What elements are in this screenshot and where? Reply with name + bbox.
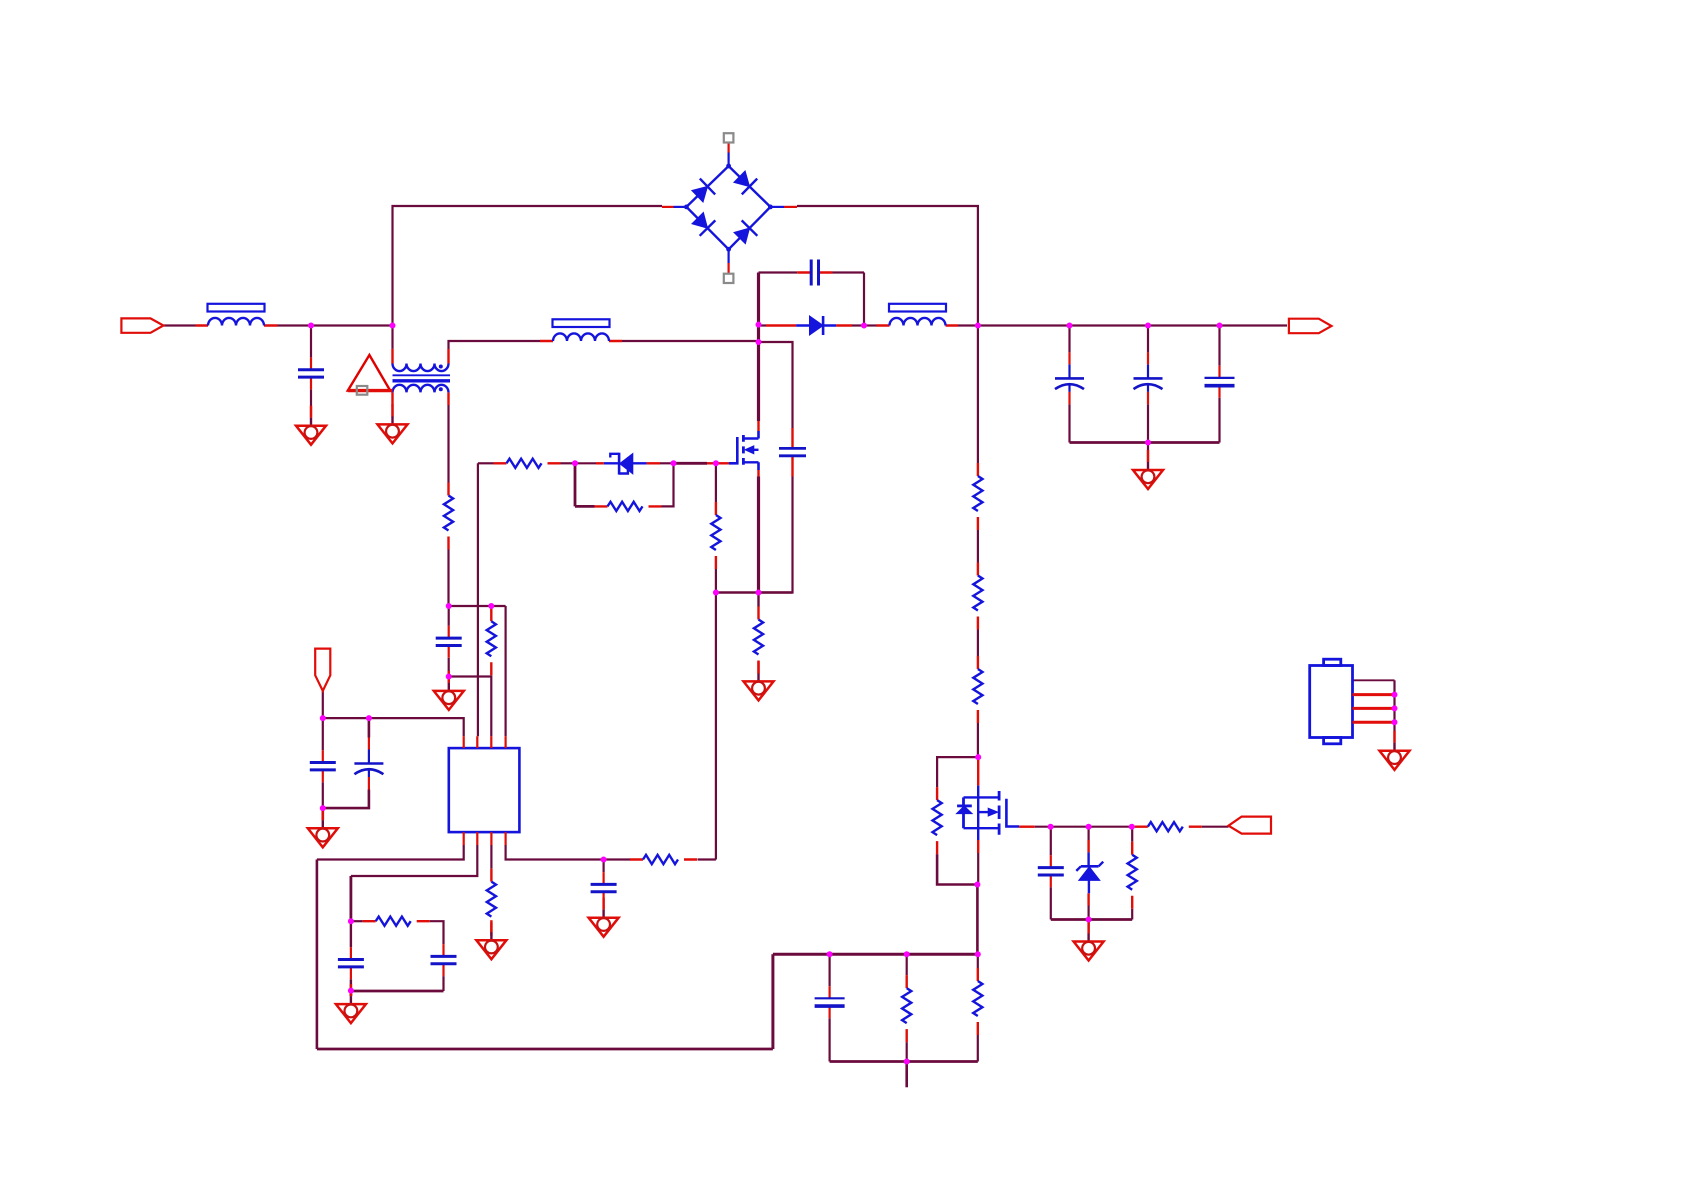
- wire: connector J2 pin1 wire: [1353, 679, 1395, 681]
- wire: bridge DC side across top and down to output rail junction: [797, 206, 978, 326]
- R9 body: [630, 855, 697, 864]
- wire: R3 to zener junction: [561, 462, 576, 464]
- wire: zener parallel loop bottom right and right leg: [662, 463, 674, 506]
- wire: rail D2 junction to L3: [864, 324, 877, 326]
- wire: red tail into gate junction: [707, 462, 716, 464]
- junction: VCC rail aux tap: [446, 603, 452, 609]
- C15: [1205, 366, 1235, 398]
- wire: R12 to feedback flag: [1202, 826, 1229, 828]
- ground symbol under C1: [296, 406, 326, 445]
- transformer T1 common-mode choke: [393, 349, 451, 406]
- IC U1 controller: [449, 748, 520, 832]
- C10: [338, 947, 364, 979]
- junction: Q2 gate rail D5 tap: [1086, 824, 1092, 830]
- junction: VCC rail R7 tap: [488, 603, 494, 609]
- junction: RC network ground node: [348, 988, 354, 994]
- wire: C5 stubs: [322, 718, 324, 808]
- R3 body: [494, 459, 561, 468]
- inductor L1 shielded input choke: [196, 304, 278, 326]
- wire: zener net bottom rail: [1051, 918, 1132, 921]
- IC U1 top pin leads: [464, 736, 506, 748]
- wire: L2 to Q1 drain node: [622, 340, 759, 342]
- junction: sense rail R15 tap: [975, 951, 981, 957]
- R8 body: [487, 869, 496, 936]
- wire: IC pin1 feedback run down-left: [317, 845, 464, 860]
- wire: snubber right leg to main rail: [863, 273, 865, 326]
- wire: long left vertical of feedback loop: [316, 860, 319, 1050]
- R14 body: [902, 975, 911, 1042]
- R2 body: [444, 483, 453, 550]
- gnd: [1133, 450, 1163, 489]
- junction: VCC flag node left: [320, 715, 326, 721]
- junction: snubber right leg on rail: [861, 323, 867, 329]
- IC U1 bottom pin leads: [464, 832, 506, 845]
- wire: Q2 gate rail to feedback resistor: [1035, 826, 1135, 828]
- wire: IC pin2 run to RC network: [351, 845, 477, 876]
- wire: gate network corner to R3: [478, 462, 494, 464]
- wire: gate vertical R5 to bottom corner at feedback row: [715, 569, 717, 860]
- junction: D4 cathode node: [572, 460, 578, 466]
- wire: C7 to VCC return node: [448, 658, 450, 677]
- junction: VCC flag node C6 tap: [366, 715, 372, 721]
- wire: R7 top stub: [490, 606, 492, 608]
- bridge rectifier BR1: [662, 143, 797, 274]
- wire: IC pin3 to R8: [490, 845, 492, 869]
- junction: Q2 gate rail C11 tap: [1048, 824, 1054, 830]
- wire: aux winding drop to VCC rectifier resistor: [447, 405, 449, 483]
- junction: gate vertical at mid row: [713, 590, 719, 596]
- wire: C8 branch from pin4 run: [602, 860, 604, 910]
- wire: bottom net R15 stubs: [977, 954, 979, 1061]
- wire: D4 right stub to junction: [660, 462, 674, 464]
- capacitor C3 drain-source snubber cap: [779, 428, 806, 477]
- wire: output caps bottom rail: [1070, 441, 1220, 444]
- gnd: [744, 661, 774, 700]
- wire: zener parallel loop left leg: [574, 463, 577, 506]
- gnd: [336, 984, 366, 1023]
- junction: pin4 run C8 tap: [601, 857, 607, 863]
- wire: T1 primary top pin to node A: [391, 326, 393, 349]
- connector J1 output flag: [1289, 319, 1332, 334]
- wire: aux resistor to VCC rail junction: [447, 550, 449, 607]
- wire: output cap2 branch: [1147, 326, 1149, 443]
- C6: [354, 738, 383, 790]
- wire: zener net ground drop: [1087, 920, 1089, 934]
- C7: [436, 626, 462, 658]
- C8: [591, 872, 617, 904]
- transistor Q1 main switching N-MOSFET: [716, 421, 759, 477]
- R4 body: [595, 502, 662, 511]
- wire: VCC flag rail to IC pin A corner: [323, 718, 464, 736]
- wire: startup resistor chain segments on HV line: [977, 326, 979, 758]
- bridge diode D-bottomright: [732, 220, 757, 245]
- junction: J2 pin4 tie: [1392, 719, 1398, 725]
- wire: IC pin4 run right: [506, 845, 631, 860]
- zener diode D5 voltage reference: [1076, 840, 1103, 906]
- bridge diode D-topright: [732, 169, 757, 195]
- junction: zener net ground rail: [1086, 917, 1092, 923]
- wire: D5 branch stubs: [1087, 827, 1089, 920]
- bridge AC terminal square bottom: [724, 274, 734, 283]
- junction: Q2 source node: [974, 882, 980, 888]
- wire: Q1 source to mid junction: [757, 477, 760, 593]
- wire: junction to Q1 gate junction: [674, 462, 708, 465]
- wire: R13 branch stubs: [1131, 827, 1133, 920]
- wire: VCC caps node to ground: [321, 808, 324, 820]
- wire: connector common vertical to ground: [1393, 680, 1395, 743]
- junction: RC network top node: [348, 918, 354, 924]
- wire: C10 stubs: [350, 921, 352, 990]
- spark gap SG1 surge arrester triangle: [348, 355, 393, 391]
- wire: output rail from L3 to output flag: [958, 324, 1287, 326]
- junction: J2 pin2 tie: [1392, 692, 1398, 698]
- wire: RC R10 left stub: [351, 920, 363, 922]
- wire: Q2 source node down to sense rail: [976, 885, 979, 955]
- gnd: [476, 920, 506, 959]
- wire: RC network top leg: [349, 876, 352, 921]
- wire: C7 branch from VCC rail: [448, 606, 450, 626]
- wire: input rail L1 to node A junction to transformer node: [278, 324, 393, 326]
- wire: Q2 bias loop bottom: [937, 854, 977, 884]
- junction: HV rail / startup chain: [975, 323, 981, 329]
- wire: T1 primary bottom pin to ground: [391, 406, 393, 417]
- RS3 body: [973, 656, 982, 723]
- capacitor C2 snubber: [797, 260, 832, 286]
- wire: RC node to ground: [349, 991, 352, 997]
- gnd: [1380, 731, 1410, 770]
- junction: Q1 source at mid row: [756, 590, 762, 596]
- wire: source resistor to ground segment: [757, 593, 759, 607]
- junction: Q2 drain bias node: [975, 754, 981, 760]
- wire: T1 secondary top to L2 row: [449, 341, 541, 349]
- bridge corner node dots: [684, 164, 773, 252]
- no-connect square on spark gap: [357, 386, 368, 395]
- wire: VCC rail corner down to IC pin D: [505, 606, 507, 736]
- wire: zener parallel loop bottom left: [575, 505, 595, 508]
- zener diode D4 gate clamp: [596, 453, 660, 475]
- wire: feedback riser to sense rail: [771, 954, 774, 1049]
- bridge AC terminal square top: [724, 133, 734, 142]
- connector J2 pin wires 2-4: [1353, 695, 1395, 723]
- wire: dangling stub below bottom net: [905, 1062, 908, 1088]
- R12 body: [1135, 822, 1202, 831]
- wire: mid horizontal tying gate vertical, source, Cds bottom: [716, 591, 793, 593]
- junction: input rail / C1: [308, 323, 314, 329]
- bridge diode D-topleft: [690, 179, 715, 205]
- junction: sense rail C12 tap: [827, 951, 833, 957]
- R7 body: [487, 608, 496, 675]
- connector FB flag output: [1229, 817, 1272, 834]
- gnd: [308, 808, 338, 847]
- wire: R9 to gate vertical corner: [698, 858, 716, 860]
- gnd: [434, 671, 464, 710]
- wire: Q2 bias loop top: [937, 757, 978, 787]
- R13 body: [1128, 842, 1137, 909]
- R15 body: [973, 968, 982, 1035]
- R5 body: [711, 502, 720, 569]
- wire: C1 to ground: [310, 389, 312, 417]
- R10 body: [363, 917, 430, 926]
- wire: input rail from J1 to L1: [163, 324, 195, 326]
- C5: [310, 750, 336, 782]
- wire: VCC flag to rail: [322, 691, 324, 718]
- wire: bottom net lower rail: [830, 1060, 978, 1063]
- bridge diode D-bottomleft: [690, 210, 715, 235]
- inductor L3 output shielded choke: [877, 304, 959, 326]
- wire: RC right leg with C9: [430, 921, 444, 991]
- wire: sense rail to Q2 source node: [773, 953, 978, 956]
- junction: bottom net lower rail stub: [904, 1059, 910, 1065]
- wire: C11 branch: [1050, 827, 1052, 920]
- wire: VCC return node to R7/pin C vertical: [449, 675, 492, 677]
- junction: sense rail R14 tap: [904, 951, 910, 957]
- gnd: [1074, 922, 1104, 961]
- junction: node A rail/bridge/T1: [390, 323, 396, 329]
- junction: output cap1 tap: [1067, 323, 1073, 329]
- capacitor C1 X-cap to ground: [298, 357, 324, 389]
- junction: Q1 gate node: [713, 460, 719, 466]
- wire: riser from node A up and across to bridge AC- terminal: [393, 206, 663, 326]
- C12: [815, 986, 845, 1018]
- wire: Cds branch bottom to source node: [759, 477, 793, 593]
- wire: D2 row stubs: [759, 324, 865, 326]
- wire: output cap3 branch: [1218, 326, 1220, 443]
- wire: C6 stubs and corner to C5 node: [323, 718, 369, 808]
- C9: [431, 944, 457, 976]
- wire: VCC rail: [449, 605, 506, 607]
- junction: snubber diode tap on drain line: [756, 322, 762, 328]
- transistor Q2 feedback MOSFET with body diode: [957, 757, 1035, 853]
- wire: snubber loop left leg on drain line: [757, 273, 760, 422]
- wire: D4 left stub: [575, 462, 596, 464]
- junction: VCC caps return node: [320, 805, 326, 811]
- RS2 body: [973, 563, 982, 630]
- connector J2 block: [1310, 659, 1353, 744]
- wire: R7 bottom to IC pin C: [490, 675, 492, 736]
- wire: Q2 source segment to junction: [977, 853, 979, 885]
- wire: snubber top with C2: [759, 271, 865, 273]
- C14: [1134, 352, 1163, 404]
- connector J1 input flag: [121, 318, 163, 332]
- wire: C1 branch down from input rail: [310, 326, 312, 358]
- inductor L2 filter choke: [540, 319, 622, 341]
- junction: J2 pin3 tie: [1392, 705, 1398, 711]
- wire: output ground drop: [1147, 443, 1149, 463]
- wire: long bottom rail: [317, 1048, 773, 1051]
- junction: output caps ground rail: [1145, 440, 1151, 446]
- wire: VCC return node to ground: [448, 677, 450, 683]
- wire: output cap1 branch: [1068, 326, 1070, 443]
- R11 body: [933, 787, 942, 854]
- junction: L2/Cds tap on drain line: [756, 339, 762, 345]
- ground: [378, 404, 408, 443]
- gnd: [589, 898, 619, 937]
- C11: [1038, 855, 1064, 887]
- wire: bottom net R14 stubs: [906, 954, 908, 1061]
- junction: D4 anode node: [671, 460, 677, 466]
- wire: Cds branch top: [759, 342, 793, 428]
- junction: output cap2 tap: [1145, 323, 1151, 329]
- junction: output cap3 tap: [1217, 323, 1223, 329]
- wire: bottom net cap branch: [828, 954, 830, 1061]
- power flag VCC: [315, 649, 330, 691]
- wire: gate drive vertical from corner down to IC pin B: [477, 463, 479, 736]
- junction: Q2 gate rail R13/R12 tap: [1129, 824, 1135, 830]
- diode D2 snubber blocking diode: [766, 316, 852, 335]
- wire: RC bottom rail: [351, 990, 444, 993]
- R6 body: [754, 607, 763, 674]
- wire: gate pulldown vertical upper: [715, 463, 717, 502]
- C13: [1055, 352, 1084, 404]
- RS1 body: [973, 463, 982, 530]
- junction: C7 ground node: [446, 674, 452, 680]
